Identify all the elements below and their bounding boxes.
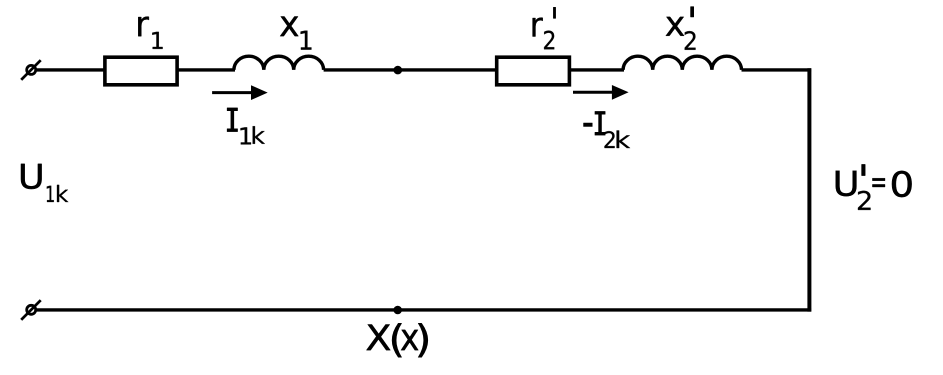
wire top segment C (324, 68, 496, 71)
resistor R2 (497, 57, 570, 85)
wire top segment A (37, 68, 107, 71)
resistor R1 (105, 57, 177, 85)
wire top segment E (742, 68, 812, 71)
label X(x) short-circuit point (366, 323, 427, 357)
label r2' for resistor R2 (533, 7, 556, 49)
label x1 for inductor L1 (280, 16, 311, 49)
label U2'=0 output voltage (836, 165, 912, 210)
inductor L1 (x1) 3 arcs (234, 56, 324, 70)
node junction dot bottom (point X) (393, 306, 402, 315)
label I1k (227, 108, 265, 144)
label x2' for inductor L2 (666, 7, 696, 50)
inductor L2 (x2) 4 arcs (623, 56, 741, 70)
wire top segment B (177, 68, 235, 71)
label -I2k (584, 112, 631, 149)
wire right vertical (807, 68, 811, 311)
wire top segment D (569, 68, 625, 71)
node junction dot top (394, 66, 403, 75)
label U1k input voltage (21, 164, 68, 202)
wire bottom (37, 308, 812, 311)
current arrow -I2k (573, 85, 629, 100)
current arrow I1k (212, 85, 268, 100)
terminal T1 top-left input (21, 60, 41, 80)
label r1 for resistor R1 (138, 17, 162, 49)
terminal T2 bottom-left (21, 300, 41, 320)
